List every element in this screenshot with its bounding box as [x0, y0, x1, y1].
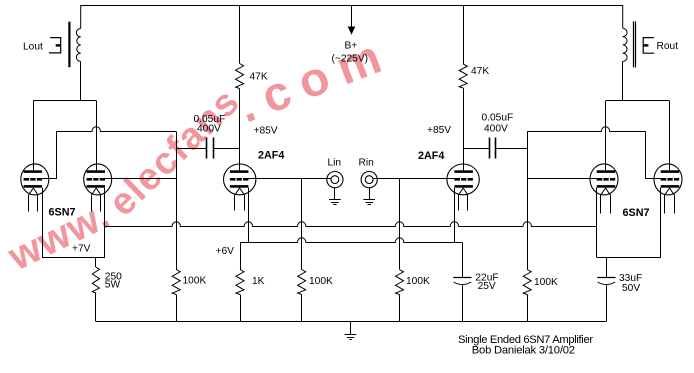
wire 47K R2 top lead	[463, 6, 465, 65]
wire V4 plate lead	[669, 101, 671, 171]
svg-text:25V: 25V	[478, 281, 496, 292]
transformer T2 core	[634, 21, 636, 67]
wire V1 plate lead	[33, 101, 35, 172]
wire V1 grid riser	[56, 132, 58, 180]
label C2 0.05uF	[482, 113, 514, 135]
resistor R2 47K	[459, 64, 467, 88]
wire R8 bottom stub	[527, 295, 529, 322]
svg-text:(~225V): (~225V)	[332, 54, 369, 65]
resistor R8 100K	[523, 270, 531, 295]
svg-text:+85V: +85V	[254, 125, 278, 136]
svg-text:47K: 47K	[250, 71, 268, 82]
capacitor C3 22uF	[453, 278, 471, 322]
svg-text:+6V: +6V	[216, 246, 235, 257]
wire driver cathode net with hops	[240, 238, 462, 243]
wire R5 bottom stub	[240, 295, 242, 322]
svg-text:6SN7: 6SN7	[49, 207, 76, 219]
wire right grid-leak vertical	[527, 132, 529, 270]
svg-text:5W: 5W	[105, 279, 121, 290]
label C4 33uF	[619, 273, 642, 294]
svg-text:100K: 100K	[406, 276, 430, 287]
svg-text:100K: 100K	[183, 276, 207, 287]
triode V1 6SN7a	[21, 164, 49, 258]
wire V5 grid to Lin	[248, 178, 331, 180]
svg-text:Lin: Lin	[328, 157, 342, 168]
wire right coupling tap	[463, 148, 489, 150]
svg-text:6SN7: 6SN7	[623, 207, 650, 219]
label C3 22uF	[475, 272, 498, 292]
svg-text:Lout: Lout	[23, 41, 43, 52]
wire R2 to V6 plate	[463, 88, 465, 171]
wire left grid bus with hop	[56, 127, 176, 132]
resistor R3 250 5W	[92, 267, 99, 293]
wire R1 to V5 plate	[239, 89, 241, 172]
triode V4 6SN7b right	[654, 164, 682, 258]
resistor R1 47K	[236, 64, 244, 89]
wire R6 grid-leak vertical	[399, 179, 401, 270]
watermark	[1, 26, 400, 279]
wire left plate bus	[33, 100, 96, 102]
resistor R6 100K	[298, 270, 306, 295]
resistor R5 1K	[236, 270, 244, 295]
transformer T2 primary coil	[623, 28, 627, 61]
wire R4 grid-leak vertical	[301, 179, 303, 270]
wire ground bus	[96, 321, 606, 323]
wire left grid-leak vertical	[176, 132, 178, 270]
wire R3 bottom stub	[95, 293, 97, 322]
capacitor C2 0.05uF	[490, 138, 528, 159]
svg-text:400V: 400V	[484, 123, 508, 134]
triode V3 6SN7a right	[590, 164, 618, 258]
wire right grid bus with hop	[527, 127, 645, 132]
svg-text:+7V: +7V	[72, 244, 91, 255]
svg-text:B+: B+	[345, 41, 358, 52]
svg-text:100K: 100K	[309, 276, 333, 287]
svg-text:0.05uF: 0.05uF	[482, 113, 514, 124]
triode V2 6SN7b	[84, 164, 112, 258]
jack Lin	[327, 172, 343, 188]
svg-text:Rout: Rout	[657, 41, 679, 52]
wire V2 plate lead	[96, 101, 98, 172]
wire V6 grid to Rin	[373, 178, 454, 180]
wire V4 grid lead	[646, 178, 661, 180]
wire R5 top stub	[240, 243, 242, 270]
capacitor C4 33uF	[597, 278, 615, 322]
capacitor C1 0.05uF	[207, 138, 240, 159]
ground main	[345, 322, 357, 340]
B+ supply arrow	[348, 6, 356, 35]
wire T2 primary to plate bus	[622, 62, 624, 102]
svg-text:400V: 400V	[197, 124, 221, 135]
transformer T1 core	[68, 22, 70, 67]
label R3 250	[105, 272, 122, 291]
wire right cathode join	[597, 257, 661, 259]
svg-text:2AF4: 2AF4	[258, 150, 284, 162]
wire V1 grid lead	[42, 178, 56, 180]
jack Rin	[361, 172, 377, 188]
svg-text:50V: 50V	[622, 283, 640, 294]
wire V2 grid lead	[105, 178, 176, 180]
wire V3 grid lead	[527, 178, 597, 180]
transformer T1 secondary	[49, 38, 61, 53]
wire T1 primary to plate bus	[80, 62, 82, 101]
ground Rin shield	[363, 188, 375, 205]
svg-text:100K: 100K	[534, 277, 558, 288]
wire C4 top stub	[606, 258, 608, 278]
svg-text:Bob Danielak 3/10/02: Bob Danielak 3/10/02	[472, 345, 575, 357]
wire V3 plate lead	[605, 101, 607, 171]
svg-text:+85V: +85V	[427, 125, 451, 136]
wire R6 bottom stub	[301, 295, 303, 322]
resistor R4 100K	[172, 270, 180, 295]
transformer T1 primary coil	[76, 29, 80, 62]
ground Lin shield	[329, 188, 341, 205]
wire 22uF corner	[462, 243, 464, 278]
wire R4 bottom stub	[176, 295, 178, 322]
wire top B+ bus	[81, 6, 623, 29]
svg-text:Rin: Rin	[359, 157, 374, 168]
wire cathode bus with hops	[105, 222, 597, 227]
label C1 0.05uF	[194, 114, 226, 135]
wire R3 top stub	[95, 258, 97, 268]
svg-text:47K: 47K	[471, 66, 489, 77]
transformer T2 secondary	[643, 38, 654, 54]
wire R7 bottom stub	[399, 295, 401, 322]
svg-text:1K: 1K	[252, 276, 265, 287]
wire left coupling tap	[176, 148, 206, 150]
wire V4 grid riser	[645, 132, 647, 180]
pentode V6 2AF4 right	[447, 164, 479, 243]
wire right plate bus	[606, 100, 670, 102]
resistor R7 100K	[396, 270, 404, 295]
wire 47K R1 top lead	[239, 6, 241, 64]
svg-text:2AF4: 2AF4	[418, 150, 444, 162]
wire left cathode join	[42, 257, 105, 259]
pentode V5 2AF4 left	[224, 164, 256, 243]
